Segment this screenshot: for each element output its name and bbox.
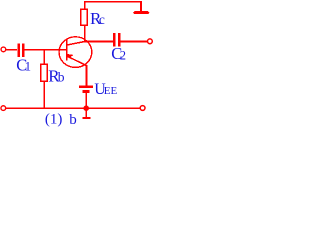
wire C2 to output terminal — [121, 40, 148, 42]
battery UEE positive plate — [79, 86, 93, 89]
svg-text:2: 2 — [120, 48, 126, 62]
ground (top right) — [133, 11, 150, 14]
wire Rc top to top rail — [85, 2, 141, 12]
resistor Rb — [41, 64, 48, 81]
svg-text:EE: EE — [104, 85, 118, 97]
bottom left terminal — [1, 106, 6, 111]
wire collector node to C2 — [85, 40, 113, 42]
svg-text:(1): (1) — [45, 112, 63, 128]
wire battery to bottom rail — [85, 93, 87, 108]
resistor Rc — [81, 9, 88, 25]
node Vi input terminal — [1, 47, 6, 52]
wire emitter down to battery — [86, 65, 88, 86]
junction dot on bottom rail — [83, 105, 89, 111]
node Vo output terminal — [148, 39, 153, 44]
battery UEE negative plate — [82, 90, 89, 93]
transistor Q1 emitter arrow (PNP, points to base) — [67, 54, 74, 58]
transistor Q1 emitter lead — [67, 56, 87, 66]
bottom right terminal — [140, 106, 145, 111]
wire input to C1 — [6, 49, 17, 51]
svg-text:c: c — [99, 12, 105, 27]
capacitor C1 — [19, 44, 24, 57]
transistor Q1 base bar — [66, 39, 68, 61]
transistor Q1 collector lead — [67, 42, 85, 46]
wire collector node up to Rc — [84, 25, 86, 41]
capacitor C2 — [114, 33, 119, 46]
wire C1 to base — [25, 49, 67, 51]
wire base node down to Rb — [43, 50, 45, 64]
svg-text:b: b — [58, 70, 65, 85]
ground stub below rail — [85, 108, 87, 117]
svg-text:1: 1 — [25, 59, 31, 73]
transistor Q1 body — [59, 37, 92, 68]
wire Rb to bottom rail — [43, 81, 45, 108]
bottom rail wire — [6, 107, 140, 109]
svg-text:b: b — [69, 112, 77, 128]
